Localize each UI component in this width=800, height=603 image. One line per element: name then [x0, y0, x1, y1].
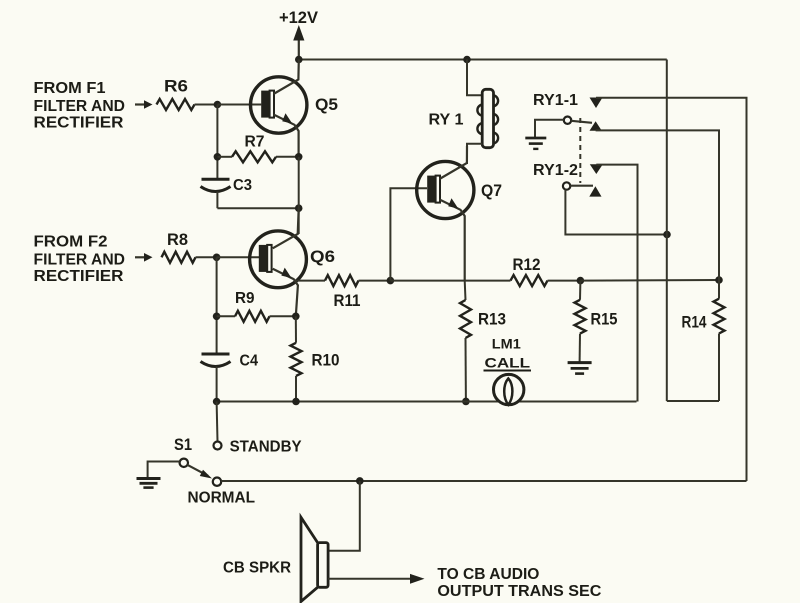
- switch S1 pivot circle: [180, 459, 188, 467]
- wire base node down to R7: [216, 105, 218, 180]
- wire R8 to base node: [196, 256, 217, 258]
- transistor Q5 base bar: [261, 91, 274, 118]
- svg-text:RECTIFIER: RECTIFIER: [34, 268, 124, 285]
- resistor R10: [291, 343, 302, 376]
- svg-text:FILTER AND: FILTER AND: [34, 252, 126, 269]
- label Q5: [315, 95, 338, 114]
- label R11: [334, 292, 361, 310]
- wire R15 bottom lead: [579, 334, 581, 362]
- transistor Q7 circle: [417, 161, 474, 218]
- relay coil RY1 loops left: [477, 105, 483, 135]
- label C4: [240, 353, 259, 370]
- svg-text:FROM F2: FROM F2: [34, 234, 108, 251]
- contact RY1-1 pole circle: [564, 117, 571, 124]
- link RY1 mechanical dashed: [579, 118, 581, 183]
- wire right vertical from rail: [666, 60, 668, 402]
- svg-text:R11: R11: [334, 292, 361, 310]
- resistor R14: [714, 299, 725, 334]
- svg-text:RY1-2: RY1-2: [533, 162, 578, 179]
- label RY1: [429, 112, 464, 129]
- node R10 bottom junction: [292, 398, 300, 406]
- svg-text:R10: R10: [312, 352, 340, 370]
- svg-text:S1: S1: [174, 435, 192, 454]
- label FROM F2: [34, 234, 108, 251]
- wire R14 bottom: [667, 400, 719, 402]
- wire RY1-2 NO down to rail: [596, 165, 637, 402]
- node RY1-2 wire junction: [663, 231, 671, 239]
- resistor R11: [325, 275, 358, 286]
- transistor Q6 collector: [273, 208, 299, 248]
- contact RY1-1 NO triangle: [590, 98, 603, 109]
- wire RY1-1 pole to ground: [535, 120, 564, 137]
- wire speaker top lead: [328, 481, 360, 551]
- wire +12V rail: [299, 59, 667, 61]
- relay coil RY1 loops right: [493, 95, 499, 143]
- svg-text:STANDBY: STANDBY: [230, 439, 302, 456]
- transistor Q5 emitter: [274, 115, 299, 157]
- ground R15: [568, 363, 592, 374]
- svg-text:LM1: LM1: [492, 336, 521, 352]
- label R9: [235, 290, 255, 307]
- wire R7 left lead: [217, 156, 232, 158]
- transistor Q7 base bar: [427, 176, 440, 203]
- contact S1 normal circle: [213, 478, 221, 486]
- svg-text:R9: R9: [235, 290, 255, 307]
- label FILTER AND (F2): [34, 252, 126, 269]
- svg-text:RY1-1: RY1-1: [533, 92, 578, 109]
- svg-text:R13: R13: [478, 311, 506, 329]
- wire bottom rail: [217, 401, 637, 403]
- svg-text:R7: R7: [245, 134, 265, 151]
- wire Q7 base riser: [390, 188, 427, 280]
- resistor R7: [232, 151, 276, 162]
- node Q5 base junction: [214, 101, 222, 109]
- wire Q6 collector riser: [298, 208, 300, 234]
- wire coil bottom to Q7: [467, 144, 482, 163]
- node R15 top junction: [577, 277, 585, 285]
- label R14: [682, 314, 708, 332]
- wire standby riser: [216, 402, 219, 442]
- wire R10 top lead: [295, 316, 297, 343]
- wire base node to Q6: [217, 256, 261, 258]
- svg-text:FROM F1: FROM F1: [34, 80, 106, 97]
- wire R6 to base node: [195, 104, 218, 106]
- label R10: [312, 352, 340, 370]
- wire base node to Q5: [217, 104, 261, 106]
- transistor Q6 circle: [250, 231, 307, 288]
- resistor R6: [157, 99, 195, 110]
- wire Q5 emitter rail down: [298, 157, 300, 208]
- label RECTIFIER (F2): [34, 268, 124, 285]
- contact RY1-1 NC triangle: [590, 121, 602, 131]
- label S1: [174, 435, 192, 454]
- label FILTER AND (F1): [34, 98, 126, 115]
- node speaker tap junction: [356, 477, 364, 485]
- transistor Q5 emitter arrow: [282, 113, 292, 123]
- svg-text:OUTPUT TRANS SEC: OUTPUT TRANS SEC: [437, 583, 601, 600]
- label RY1-2: [533, 162, 578, 179]
- wire S1 pivot to ground: [148, 462, 180, 478]
- capacitor C3: [201, 179, 231, 191]
- svg-text:+12V: +12V: [279, 8, 319, 27]
- label R13: [478, 311, 506, 329]
- wire RY1-1 NC to R14: [596, 130, 719, 280]
- input arrow F2: [135, 253, 153, 262]
- input arrow F1: [135, 100, 153, 109]
- label C3: [233, 177, 252, 194]
- contact RY1-2 NC triangle: [589, 186, 601, 196]
- node R13 bottom junction: [462, 398, 470, 406]
- wire RY1-1 NO to right rail: [596, 98, 747, 481]
- speaker CB SPKR cone: [301, 517, 318, 601]
- node Q6 base junction: [213, 253, 221, 261]
- ground S1: [137, 479, 161, 488]
- svg-text:TO CB AUDIO: TO CB AUDIO: [437, 566, 539, 583]
- label CALL: [484, 354, 532, 370]
- wire R10 bottom lead: [295, 376, 297, 402]
- power arrow +12V: [293, 25, 304, 59]
- svg-text:Q7: Q7: [481, 181, 502, 200]
- svg-text:R6: R6: [164, 77, 188, 96]
- node coil tap junction: [463, 56, 471, 64]
- wire RY1-2 pole down right: [565, 190, 667, 235]
- switch S1 arm arrow: [200, 470, 212, 479]
- label R6: [164, 77, 188, 96]
- resistor R9: [235, 311, 270, 322]
- svg-text:Q5: Q5: [315, 95, 338, 114]
- svg-text:C3: C3: [233, 177, 252, 194]
- node +12V junction: [295, 56, 303, 64]
- label +12V: [279, 8, 319, 27]
- wire C3 to corner: [216, 192, 218, 209]
- node R9 right junction: [292, 313, 300, 321]
- lamp LM1: [494, 374, 524, 404]
- wire normal line: [221, 480, 746, 482]
- wire R14 top lead: [718, 280, 720, 299]
- label RY1-1: [533, 92, 578, 109]
- wire R13 bottom lead: [465, 338, 467, 401]
- contact S1 standby circle: [214, 442, 222, 450]
- wire R12 to R15 node: [548, 280, 581, 282]
- wire base node to R12: [390, 280, 510, 282]
- transistor Q6 emitter arrow: [281, 268, 291, 278]
- svg-text:R15: R15: [591, 311, 618, 329]
- node C3 bottom junction: [295, 204, 303, 212]
- transistor Q7 emitter arrow: [448, 198, 458, 208]
- node R7 right junction: [295, 153, 303, 161]
- wire R9 left lead: [217, 315, 235, 317]
- resistor R12: [511, 275, 548, 286]
- svg-text:CB SPKR: CB SPKR: [223, 560, 291, 577]
- relay coil RY1 core: [482, 89, 493, 147]
- label OUTPUT TRANS SEC: [437, 583, 601, 600]
- svg-text:FILTER AND: FILTER AND: [34, 98, 126, 115]
- transistor Q7 emitter: [440, 200, 465, 281]
- svg-text:Q6: Q6: [310, 247, 335, 266]
- label TO CB AUDIO: [437, 566, 539, 583]
- svg-text:R8: R8: [167, 230, 188, 249]
- label RECTIFIER (F1): [34, 115, 124, 132]
- label NORMAL: [188, 490, 256, 507]
- wire R9 right lead: [270, 315, 296, 317]
- transistor Q5 collector: [274, 60, 299, 95]
- svg-text:R12: R12: [513, 256, 541, 274]
- label FROM F1: [34, 80, 106, 97]
- svg-text:NORMAL: NORMAL: [188, 490, 256, 507]
- wire C4 to bottom rail: [216, 367, 218, 402]
- node R7 left junction: [214, 153, 222, 161]
- contact RY1-2 pole arm: [570, 185, 593, 187]
- speaker CB SPKR driver: [318, 543, 329, 588]
- wire Q7 emitter to R13: [464, 281, 467, 300]
- node bottom rail left junction: [213, 398, 221, 406]
- svg-text:C4: C4: [240, 353, 259, 370]
- contact RY1-2 NO triangle: [590, 164, 603, 174]
- wire R7 right lead: [276, 156, 299, 158]
- contact RY1-2 pole circle: [563, 182, 570, 189]
- node Q7 base junction: [387, 277, 395, 285]
- resistor R8: [162, 252, 196, 263]
- wire coil tap down: [467, 60, 482, 96]
- transistor Q7 collector: [440, 146, 468, 179]
- transistor Q5 circle: [251, 77, 307, 133]
- node R12 end junction: [715, 276, 723, 284]
- switch S1 arm: [187, 465, 208, 476]
- svg-text:RY 1: RY 1: [429, 112, 464, 129]
- wire R15 top lead: [579, 281, 581, 300]
- label R7: [245, 134, 265, 151]
- wire R15 node to R14 line: [580, 279, 719, 282]
- label R12: [513, 256, 541, 274]
- label STANDBY: [230, 439, 302, 456]
- label CB SPKR: [223, 560, 291, 577]
- wire Q6 emitter to R11: [295, 280, 326, 282]
- ground RY1-1: [525, 138, 546, 149]
- resistor R13: [460, 300, 471, 338]
- svg-text:CALL: CALL: [485, 354, 531, 370]
- label Q7: [481, 181, 502, 200]
- output arrow: [410, 574, 425, 584]
- transistor Q6 base bar: [259, 245, 272, 272]
- node R9 left junction: [213, 313, 221, 321]
- wire R11 to Q7 base node: [359, 280, 391, 282]
- label Q6: [310, 247, 335, 266]
- wire speaker bottom lead: [328, 578, 411, 580]
- resistor R15: [575, 300, 586, 334]
- wire C3 corner to emitter rail: [217, 207, 298, 209]
- label R8: [167, 230, 188, 249]
- svg-text:RECTIFIER: RECTIFIER: [34, 115, 124, 132]
- contact RY1-1 pole arm: [571, 121, 592, 123]
- svg-text:R14: R14: [682, 314, 708, 332]
- transistor Q6 emitter: [273, 269, 298, 317]
- capacitor C4: [201, 354, 231, 367]
- wire R14 bottom lead: [718, 334, 720, 402]
- wire Q6 base node down: [216, 257, 218, 354]
- label LM1: [492, 336, 521, 352]
- label R15: [591, 311, 618, 329]
